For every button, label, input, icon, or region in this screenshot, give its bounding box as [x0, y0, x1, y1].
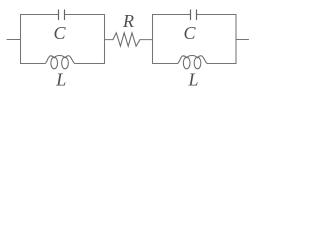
label C (right) [184, 23, 197, 43]
svg-text:C: C [184, 23, 197, 43]
svg-text:L: L [55, 70, 66, 90]
inductor L2 loop 2 [194, 57, 201, 69]
wire right tank top rail [153, 14, 237, 16]
inductor L2 bumps [178, 56, 207, 64]
inductor L1 bumps [45, 56, 74, 64]
label L (left) [55, 70, 66, 90]
wire resistor right lead [140, 39, 153, 41]
svg-text:C: C [54, 23, 67, 43]
wire right lead [236, 39, 249, 41]
label C (left) [54, 23, 67, 43]
wire left lead [7, 39, 21, 41]
svg-text:L: L [188, 70, 199, 90]
wire left tank bottom rail [21, 63, 105, 65]
wire right tank left vertical [152, 15, 154, 64]
label L (right) [188, 70, 199, 90]
inductor L2 loop 1 [183, 57, 190, 69]
label R [122, 11, 134, 31]
svg-text:R: R [122, 11, 134, 31]
inductor L1 loop 1 [51, 57, 58, 69]
wire left tank right vertical [104, 15, 106, 64]
wire left tank top rail [21, 14, 105, 16]
wire left tank left vertical [20, 15, 22, 64]
wire resistor left lead [105, 39, 114, 41]
wire right tank bottom rail [153, 63, 237, 65]
resistor R zigzag [113, 33, 140, 46]
wire right tank right vertical [235, 15, 237, 64]
inductor L1 loop 2 [62, 57, 69, 69]
capacitor C2 plates [191, 10, 197, 20]
capacitor C1 plates [59, 10, 65, 20]
